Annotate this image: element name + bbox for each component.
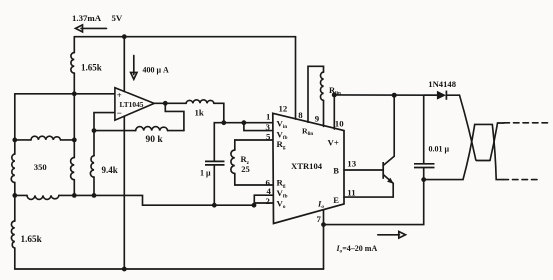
wire: twisted pair bottom conductor [424, 124, 503, 179]
wire: op-amp minus input [94, 113, 115, 131]
resistor 90k (feedback) [94, 130, 184, 132]
svg-text:B: B [333, 165, 339, 175]
svg-text:12: 12 [279, 104, 288, 114]
svg-text:1: 1 [266, 112, 270, 122]
svg-text:V+: V+ [328, 138, 339, 148]
node: cap / loop junction [421, 177, 426, 182]
wire: pin 13 base [344, 169, 383, 171]
wire: pin 2 [254, 202, 272, 204]
bridge 350: bottom arm resistor [15, 194, 75, 196]
svg-text:9: 9 [315, 114, 320, 124]
svg-text:1k: 1k [195, 108, 204, 118]
node: 9.4k bottom [92, 193, 97, 198]
svg-text:11: 11 [347, 188, 355, 198]
svg-text:1.65k: 1.65k [21, 234, 43, 244]
node: pin2/4 junction [252, 203, 257, 208]
node: bridge bottom-right [72, 193, 77, 198]
node: junction 1.65k / bridge [72, 91, 77, 96]
svg-text:5V: 5V [112, 13, 123, 23]
wire: drop to bridge top-left [14, 94, 16, 140]
bridge 350: right arm resistor [73, 140, 75, 196]
node: output junction [163, 101, 168, 106]
wire: branch to pin 3 [244, 123, 273, 131]
bridge 350: top arm resistor [15, 139, 75, 141]
node: bridge bottom-left [12, 193, 17, 198]
wire: op-amp output [154, 102, 186, 104]
wire: collector [383, 95, 394, 165]
svg-text:13: 13 [347, 158, 356, 168]
IC U2 XTR104 body [273, 113, 344, 223]
node: minus/9.4k/90k junction [92, 128, 97, 133]
svg-text:5: 5 [266, 132, 271, 142]
op-amp U1 LT1045 [115, 88, 154, 121]
node: op-amp V- to rail [122, 267, 127, 272]
node: pin1/pin3 junction [242, 120, 247, 125]
node: Rlin/V+ node [332, 92, 337, 97]
svg-text:7: 7 [317, 214, 322, 224]
resistor Rz 25 [231, 150, 235, 174]
svg-text:−: − [117, 108, 122, 118]
wire: op-amp V- supply drop to ground rail [123, 116, 125, 269]
arrow: Io direction [378, 232, 406, 239]
svg-text:4: 4 [267, 186, 272, 196]
wire: V+ node to diode [334, 94, 437, 96]
svg-text:90 k: 90 k [146, 135, 164, 145]
node: collector branch [392, 93, 397, 98]
svg-text:8: 8 [298, 110, 303, 120]
wire: drop to bridge top-right [73, 94, 75, 140]
node: 1k/cap junction [221, 120, 226, 125]
node: bridge top-left [12, 138, 17, 143]
svg-text:25: 25 [241, 164, 250, 174]
resistor Rlin (between pins 8 and 9) [320, 72, 323, 100]
svg-text:XTR104: XTR104 [291, 161, 323, 171]
wire: dashed continuation top [504, 122, 549, 124]
wire: feedback from op-amp output [165, 103, 184, 130]
wire: pin 7 output [324, 180, 424, 269]
wire: pin 10 up to V+ node [333, 95, 335, 129]
wire: dashed continuation bottom [503, 179, 538, 181]
wire: emitter [383, 175, 393, 198]
svg-text:LT1045: LT1045 [120, 100, 144, 109]
resistor 9.4k [93, 131, 95, 196]
svg-text:10: 10 [335, 118, 344, 128]
resistor R 1.65k (top) [73, 37, 75, 94]
svg-text:1N4148: 1N4148 [428, 79, 456, 89]
bridge 350: left arm resistor [14, 140, 16, 196]
svg-text:1.37mA: 1.37mA [72, 13, 102, 23]
node: pin 7 junction [321, 222, 326, 227]
wire: pin 12 from 5V rail [295, 37, 297, 119]
svg-text:+: + [117, 90, 122, 100]
wire: twisted pair top conductor [460, 95, 505, 160]
arrow: 1.37mA current direction (left) [76, 25, 107, 32]
svg-text:1.65k: 1.65k [81, 63, 102, 73]
wire: mid horizontal (bridge bottom to pins 2/4) with jog [74, 195, 254, 205]
svg-text:9.4k: 9.4k [102, 165, 118, 175]
wire: +5V top rail [74, 36, 295, 38]
svg-text:E: E [333, 195, 339, 205]
svg-text:1 μ: 1 μ [200, 168, 211, 177]
wire: node to pin 1 [224, 122, 273, 124]
arrow: emitter arrowhead [387, 178, 394, 184]
node: cap bottom on mid wire [212, 203, 217, 208]
svg-text:400 μ A: 400 μ A [143, 66, 170, 75]
svg-text:0.01 μ: 0.01 μ [429, 145, 450, 154]
wire: pin 11 [344, 196, 393, 198]
wire: op-amp V+ supply drop [123, 37, 125, 92]
wire: pin 8 up [308, 66, 324, 122]
wire: bottom ground rail [15, 268, 324, 270]
wire: op-amp + input / bridge excitation node [15, 93, 115, 95]
arrow: 400uA down into op-amp [131, 56, 137, 80]
node: 5V tap for op-amp supply (junction dot) [122, 34, 127, 39]
svg-text:Io=4–20 mA: Io=4–20 mA [336, 244, 378, 255]
wire: pin 5 to Rz [235, 140, 273, 150]
capacitor C 1u [214, 123, 224, 206]
node: bridge top-right [72, 138, 77, 143]
resistor 1k [186, 100, 214, 103]
resistor R 1.65k (bottom-left) [14, 195, 16, 269]
transistor Q1 (NPN) [382, 162, 384, 179]
wire: pin 4 [254, 195, 272, 205]
capacitor C 0.01u [423, 95, 425, 179]
svg-text:2: 2 [266, 196, 271, 206]
svg-text:350: 350 [34, 162, 47, 172]
diode D1 1N4148 [424, 94, 460, 96]
